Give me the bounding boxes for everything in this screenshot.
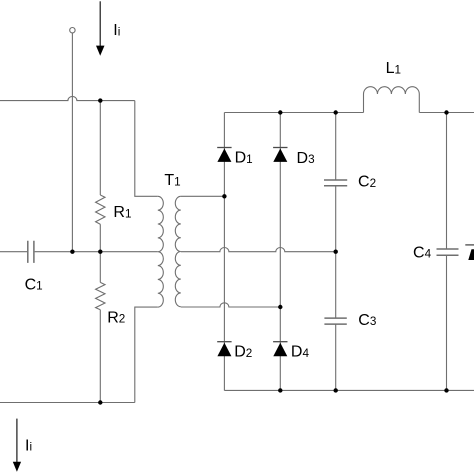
node top rail D3 branch xyxy=(278,110,282,114)
node top rail C2 branch xyxy=(334,110,338,114)
wire bridge right branch vertical x=280.3 xyxy=(279,113,281,391)
diode D4 xyxy=(273,342,287,357)
diode D1 xyxy=(217,148,231,162)
capacitor C3 xyxy=(324,318,346,324)
node R1/R2 midpoint xyxy=(98,250,102,254)
svg-text:C1: C1 xyxy=(25,276,43,293)
wire bottom left rail y=402.5 xyxy=(0,402,135,404)
wire top rail from L1 to right edge xyxy=(419,112,474,114)
capacitor C4 xyxy=(437,249,459,255)
resistor R1 top lead xyxy=(99,101,101,195)
resistor R1 bottom lead xyxy=(99,224,101,252)
node centre tap to C2/C3 junction xyxy=(334,250,338,254)
transformer T1 primary winding xyxy=(158,196,164,307)
wire secondary top tap to bridge left branch xyxy=(181,195,225,197)
wire top rail from bridge to L1 xyxy=(224,112,363,114)
wire bottom right rail y=390.45 xyxy=(224,389,474,391)
wire C2/C3 branch vertical x=335.7 xyxy=(335,113,337,391)
resistor R2 bottom lead xyxy=(99,310,101,403)
wire terminal vertical from circle down to C1 net xyxy=(71,33,73,252)
svg-text:R1: R1 xyxy=(113,204,131,221)
wire bridge left branch vertical x=224.4 xyxy=(223,113,225,391)
transformer T1 secondary winding xyxy=(175,196,181,306)
diode D3 xyxy=(273,148,287,162)
node top rail C4 branch xyxy=(444,110,448,114)
resistor R2 top lead xyxy=(99,252,101,283)
resistor R1 xyxy=(96,195,105,224)
wire C4 branch vertical x=446.5 xyxy=(446,113,448,391)
wire primary left side: down from top rail to primary top xyxy=(135,101,158,197)
wire C1 net left segment xyxy=(0,251,27,253)
current arrow Ii bottom xyxy=(13,419,21,472)
svg-text:D1: D1 xyxy=(235,150,253,167)
capacitor C1 xyxy=(28,241,34,263)
diode D5 at right edge (clipped) xyxy=(465,245,474,260)
capacitor C2 xyxy=(324,180,347,186)
wire top input rail y=100.6 with hop over terminal line xyxy=(0,96,135,100)
node secondary top tap xyxy=(222,194,226,198)
wire secondary centre tap with hops over bridge branches xyxy=(181,248,336,252)
node bottom rail C4 branch xyxy=(444,388,448,392)
svg-text:D3: D3 xyxy=(297,150,315,167)
svg-text:L1: L1 xyxy=(386,60,401,77)
wire secondary bottom tap with hop over bridge left branch xyxy=(181,303,280,307)
node secondary bottom tap to D3/D4 branch xyxy=(278,305,282,309)
svg-text:Ii: Ii xyxy=(25,437,32,454)
svg-text:D2: D2 xyxy=(234,344,252,361)
svg-text:C3: C3 xyxy=(358,312,376,329)
svg-text:T1: T1 xyxy=(164,172,180,189)
node R1 top junction xyxy=(98,98,102,102)
svg-text:R2: R2 xyxy=(107,309,125,326)
resistor R2 xyxy=(96,282,105,309)
wire C1 net right segment to primary centre tap xyxy=(35,251,158,253)
diode D2 xyxy=(217,342,231,357)
wire primary bottom to bottom left rail xyxy=(135,307,158,402)
node bottom rail D4 branch xyxy=(278,388,282,392)
node R2 bottom junction xyxy=(98,400,102,404)
current arrow Ii top xyxy=(96,1,105,55)
svg-text:C4: C4 xyxy=(413,244,432,261)
input terminal circle xyxy=(70,28,75,33)
svg-text:D4: D4 xyxy=(291,344,310,361)
svg-text:C2: C2 xyxy=(358,174,376,191)
node terminal line to C1 net xyxy=(70,250,74,254)
node bottom rail C3 branch xyxy=(334,388,338,392)
inductor L1 xyxy=(364,87,420,113)
svg-text:Ii: Ii xyxy=(113,22,120,39)
